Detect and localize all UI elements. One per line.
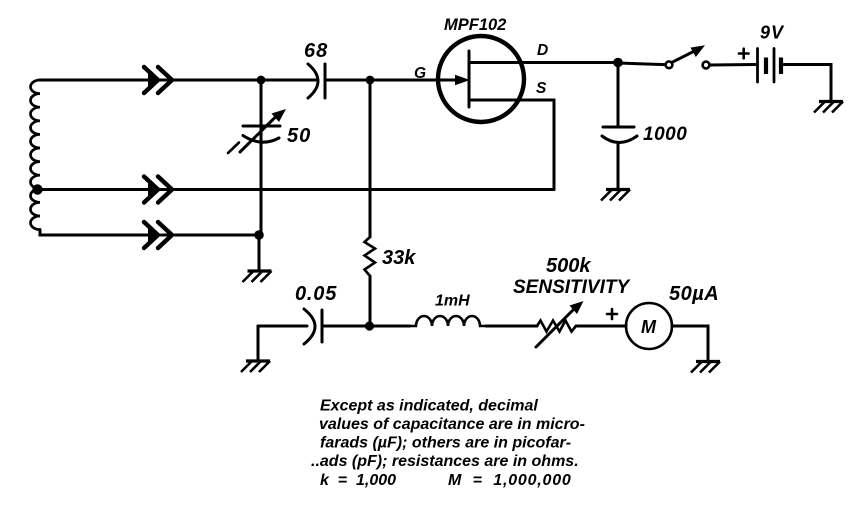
svg-text:MPF102: MPF102: [444, 16, 506, 34]
svg-text:M: M: [641, 317, 657, 337]
svg-text:33k: 33k: [382, 247, 416, 269]
svg-text:500k: 500k: [546, 255, 591, 277]
svg-text:0.05: 0.05: [295, 283, 337, 305]
svg-text:Except as indicated, decimal: Except as indicated, decimal: [320, 398, 538, 415]
svg-text:50µA: 50µA: [669, 283, 719, 305]
svg-text:SENSITIVITY: SENSITIVITY: [513, 277, 631, 298]
svg-text:1mH: 1mH: [435, 293, 470, 310]
svg-text:1000: 1000: [643, 124, 687, 145]
svg-text:9V: 9V: [760, 23, 785, 43]
svg-text:values of capacitance are in m: values of capacitance are in micro-: [319, 416, 585, 433]
svg-text:G: G: [414, 65, 426, 82]
svg-text:D: D: [537, 42, 548, 59]
svg-text:..ads (pF); resistances are in: ..ads (pF); resistances are in ohms.: [311, 453, 579, 470]
svg-text:k = 1,000: k = 1,000: [320, 472, 396, 489]
svg-text:50: 50: [287, 125, 311, 147]
svg-text:M = 1,000,000: M = 1,000,000: [448, 472, 572, 489]
svg-text:S: S: [536, 80, 547, 97]
svg-text:68: 68: [304, 40, 328, 62]
svg-text:farads (µF); others are in pic: farads (µF); others are in picofar-: [320, 435, 571, 452]
